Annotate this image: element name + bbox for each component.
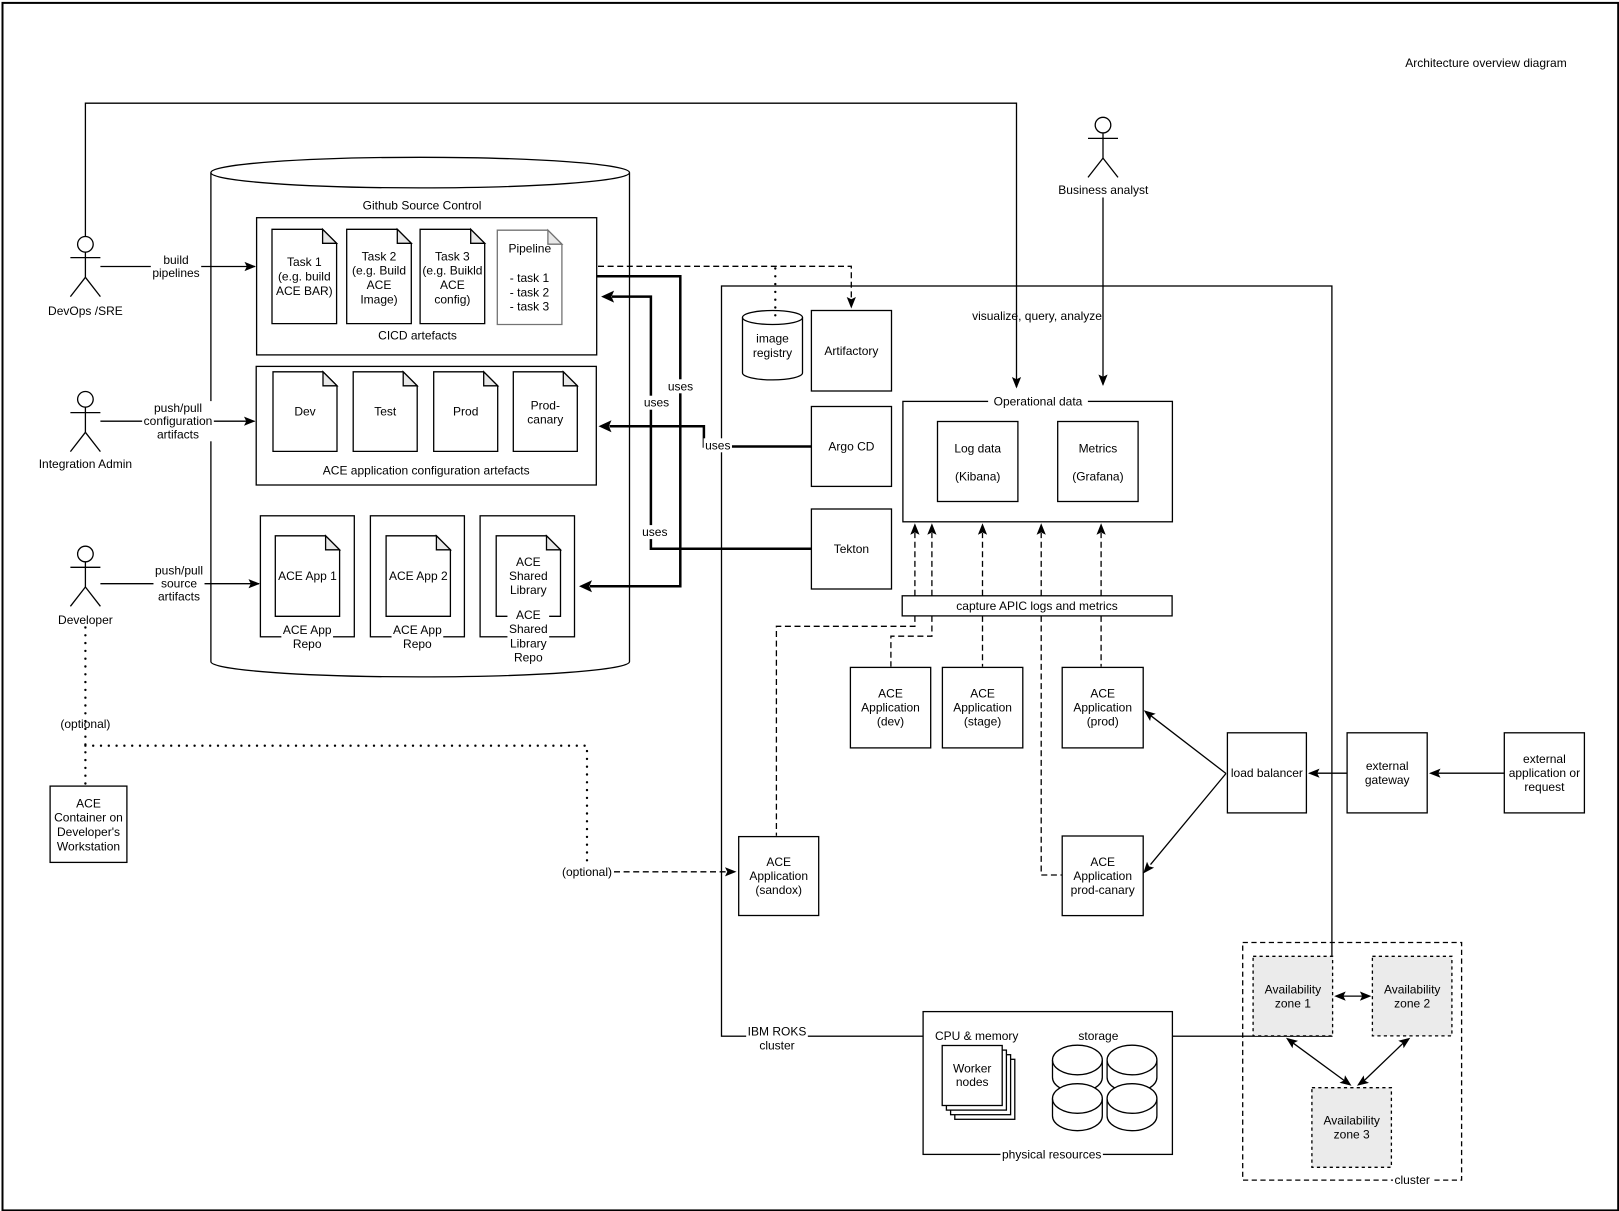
CICD artefacts container box	[257, 218, 597, 355]
svg-text:Task 2: Task 2	[362, 249, 397, 263]
svg-text:Artifactory: Artifactory	[824, 344, 878, 358]
svg-text:Repo: Repo	[403, 637, 432, 651]
svg-text:(e.g. Buikld: (e.g. Buikld	[422, 264, 482, 278]
external gateway box	[1347, 733, 1427, 813]
svg-text:Metrics: Metrics	[1079, 442, 1118, 456]
svg-text:nodes: nodes	[956, 1075, 989, 1089]
svg-text:Log data: Log data	[954, 442, 1001, 456]
svg-text:artifacts: artifacts	[157, 427, 199, 441]
physical resources box	[923, 1012, 1172, 1155]
svg-text:uses: uses	[642, 525, 667, 539]
Artifactory box	[811, 311, 891, 392]
ACE Shared Library Repo box	[480, 516, 574, 637]
svg-text:Pipeline: Pipeline	[508, 242, 551, 256]
svg-text:DevOps /SRE: DevOps /SRE	[48, 304, 123, 318]
svg-text:ACE: ACE	[76, 796, 101, 810]
Operational data box	[903, 401, 1173, 521]
document ACE Shared Library	[496, 536, 560, 617]
svg-text:ACE App 2: ACE App 2	[389, 569, 448, 583]
ACE Application (prod) box	[1062, 667, 1143, 748]
Worker nodes stacked sheets	[955, 1059, 1015, 1119]
svg-text:Shared: Shared	[509, 569, 548, 583]
svg-text:artifacts: artifacts	[158, 590, 200, 604]
svg-text:Image): Image)	[360, 293, 397, 307]
document ACE App 2	[386, 536, 450, 617]
dashed wire capture box down to ACE Application (dev)	[891, 616, 932, 667]
svg-text:Prod-: Prod-	[531, 399, 560, 413]
Availability zone 3 box	[1312, 1088, 1392, 1168]
svg-text:Test: Test	[374, 405, 397, 419]
svg-text:(optional): (optional)	[60, 717, 110, 731]
svg-text:gateway: gateway	[1365, 773, 1410, 787]
svg-text:uses: uses	[705, 438, 730, 452]
wire Integration Admin to config artefacts: push/pull configuration artifacts	[100, 420, 254, 422]
dashed wires capture box up to Operational data	[914, 533, 916, 596]
svg-text:Developer: Developer	[58, 613, 113, 627]
svg-text:Task 3: Task 3	[435, 249, 470, 263]
Argo CD box	[811, 407, 891, 487]
wire DevOps to CICD artefacts: build pipelines	[100, 266, 255, 268]
svg-text:zone 3: zone 3	[1334, 1128, 1370, 1142]
svg-text:external: external	[1366, 759, 1409, 773]
svg-text:Prod: Prod	[453, 405, 478, 419]
Availability zone 1 box	[1253, 956, 1333, 1036]
double arrow AZ2 - AZ3	[1364, 1043, 1404, 1081]
svg-text:(prod): (prod)	[1087, 715, 1119, 729]
wire load balancer to ACE Application prod-canary	[1151, 774, 1227, 865]
wire load balancer to ACE Application (prod)	[1151, 716, 1226, 774]
svg-text:(Grafana): (Grafana)	[1072, 470, 1123, 484]
double arrow AZ1 - AZ3	[1293, 1043, 1345, 1081]
svg-text:IBM ROKS: IBM ROKS	[748, 1025, 807, 1039]
svg-text:(optional): (optional)	[562, 865, 612, 879]
svg-text:Application: Application	[861, 701, 920, 715]
Github Source Control cylinder	[211, 173, 630, 677]
svg-text:CICD artefacts: CICD artefacts	[378, 329, 457, 343]
ACE Container on Developer's Workstation box	[50, 786, 127, 862]
svg-text:Container on: Container on	[54, 811, 123, 825]
svg-text:(dev): (dev)	[877, 715, 904, 729]
svg-text:ACE: ACE	[1090, 855, 1115, 869]
document Dev	[273, 372, 337, 452]
svg-text:Shared: Shared	[509, 622, 548, 636]
svg-text:Architecture overview diagram: Architecture overview diagram	[1405, 56, 1566, 70]
svg-text:Tekton: Tekton	[834, 542, 869, 556]
actor Developer	[70, 546, 100, 606]
dashed wire Pipeline to Artifactory	[598, 266, 851, 306]
wire Business analyst to Operational data: visualize, query, analyze	[1102, 198, 1104, 385]
svg-text:Operational data: Operational data	[994, 394, 1083, 408]
svg-text:Availability: Availability	[1384, 982, 1440, 996]
svg-text:cluster: cluster	[1395, 1173, 1430, 1187]
svg-text:Application: Application	[953, 701, 1012, 715]
dotted wire to image registry	[774, 269, 776, 316]
svg-text:push/pull: push/pull	[154, 401, 202, 415]
svg-text:registry: registry	[753, 346, 792, 360]
svg-text:Task 1: Task 1	[287, 255, 322, 269]
image registry cylinder	[743, 318, 803, 380]
svg-text:ACE: ACE	[970, 687, 995, 701]
svg-text:Workstation: Workstation	[57, 840, 120, 854]
svg-text:Application: Application	[1073, 869, 1132, 883]
ACE Application (sandox) box	[739, 837, 819, 916]
svg-text:Availability: Availability	[1265, 982, 1321, 996]
actor Integration Admin	[70, 392, 100, 452]
wire external application to external gateway	[1431, 772, 1505, 774]
double arrow AZ1 - AZ2	[1343, 995, 1363, 997]
document Task 2	[347, 229, 412, 323]
svg-text:Github Source Control: Github Source Control	[363, 199, 482, 213]
thick wire Tekton to CICD artefacts (uses)	[612, 297, 811, 549]
svg-text:ACE application configuration: ACE application configuration artefacts	[323, 463, 530, 477]
svg-text:prod-canary: prod-canary	[1071, 883, 1135, 897]
ACE App Repo box 2	[370, 516, 464, 637]
svg-text:(sandox): (sandox)	[755, 883, 802, 897]
ACE Application (dev) box	[850, 667, 930, 748]
actor Business analyst	[1088, 117, 1118, 177]
ACE Application (stage) box	[942, 667, 1022, 748]
svg-text:Application: Application	[749, 869, 808, 883]
document Pipeline	[497, 230, 562, 324]
svg-text:cluster: cluster	[759, 1039, 794, 1053]
svg-text:ACE App: ACE App	[283, 623, 332, 637]
ACE Application prod-canary box	[1062, 836, 1143, 916]
svg-text:ACE BAR): ACE BAR)	[276, 284, 333, 298]
svg-text:- task 1: - task 1	[510, 271, 550, 285]
svg-text:ACE: ACE	[878, 687, 903, 701]
svg-text:source: source	[161, 577, 197, 591]
dotted wire Developer to ACE Container (optional)	[84, 628, 86, 786]
svg-text:Worker: Worker	[953, 1061, 991, 1075]
svg-text:(stage): (stage)	[964, 715, 1001, 729]
svg-text:(e.g. build: (e.g. build	[278, 270, 331, 284]
svg-text:- task 2: - task 2	[510, 285, 550, 299]
ACE App Repo box 1	[260, 516, 354, 637]
svg-text:configuration: configuration	[144, 414, 213, 428]
Metrics (Grafana) box	[1058, 422, 1138, 502]
svg-text:Library: Library	[510, 583, 547, 597]
svg-text:uses: uses	[668, 379, 693, 393]
svg-text:ACE: ACE	[440, 278, 465, 292]
svg-text:ACE: ACE	[766, 855, 791, 869]
svg-text:zone 1: zone 1	[1275, 996, 1311, 1010]
svg-text:Business analyst: Business analyst	[1058, 183, 1149, 197]
dashed wire capture box down to ACE Application (prod)	[1100, 616, 1102, 667]
svg-text:Repo: Repo	[514, 651, 543, 665]
ACE application configuration artefacts box	[256, 366, 596, 485]
svg-text:load balancer: load balancer	[1231, 766, 1303, 780]
svg-text:Integration Admin: Integration Admin	[39, 457, 132, 471]
actor DevOps /SRE	[70, 237, 100, 297]
document Prod	[434, 372, 498, 452]
svg-text:- task 3: - task 3	[510, 300, 550, 314]
svg-text:(Kibana): (Kibana)	[955, 470, 1000, 484]
load balancer box	[1227, 733, 1306, 813]
svg-text:request: request	[1524, 780, 1565, 794]
svg-text:(e.g. Build: (e.g. Build	[352, 264, 406, 278]
dashed wire capture box down to ACE Application (sandox)	[776, 616, 915, 836]
dashed wire capture box down to ACE Application (stage)	[982, 616, 984, 667]
svg-text:Repo: Repo	[293, 637, 322, 651]
svg-text:Application: Application	[1073, 701, 1132, 715]
svg-text:Availability: Availability	[1323, 1114, 1379, 1128]
svg-text:Library: Library	[510, 636, 547, 650]
svg-text:CPU & memory: CPU & memory	[935, 1029, 1018, 1043]
svg-text:build: build	[163, 253, 188, 267]
wire external gateway to load balancer	[1310, 772, 1348, 774]
svg-text:image: image	[756, 331, 789, 345]
Availability zone 2 box	[1372, 956, 1452, 1036]
Tekton box	[811, 509, 891, 589]
cluster dashed box	[1243, 943, 1462, 1181]
svg-text:ACE: ACE	[1090, 687, 1115, 701]
svg-text:ACE: ACE	[516, 608, 541, 622]
svg-text:pipelines: pipelines	[152, 266, 199, 280]
thick wire CICD artefacts to ACE Shared Library Repo (uses)	[590, 276, 680, 586]
svg-text:zone 2: zone 2	[1394, 996, 1430, 1010]
thick wire Argo CD to config artefacts (uses)	[610, 426, 812, 446]
svg-text:Dev: Dev	[294, 405, 315, 419]
Log data (Kibana) box	[938, 422, 1018, 502]
svg-text:Argo CD: Argo CD	[828, 440, 874, 454]
svg-text:uses: uses	[644, 396, 669, 410]
svg-text:ACE App 1: ACE App 1	[278, 569, 337, 583]
svg-text:storage: storage	[1078, 1029, 1118, 1043]
dotted wire Developer branch to sandox (optional)	[85, 746, 587, 864]
document Prod-canary	[513, 372, 577, 452]
svg-text:external: external	[1523, 752, 1566, 766]
external application or request box	[1504, 733, 1584, 813]
document Test	[353, 372, 417, 452]
svg-text:application or: application or	[1509, 766, 1580, 780]
document Task 1	[272, 229, 337, 323]
wire Developer to ACE App Repo: push/pull source artifacts	[100, 583, 259, 585]
svg-text:config): config)	[434, 293, 470, 307]
svg-text:physical resources: physical resources	[1002, 1147, 1101, 1161]
capture APIC logs and metrics box	[902, 596, 1172, 616]
svg-text:capture APIC logs and metrics: capture APIC logs and metrics	[956, 599, 1117, 613]
IBM ROKS cluster box	[722, 286, 1332, 1036]
storage cylinders	[1053, 1060, 1103, 1092]
dashed arrow into ACE Application (sandox)	[614, 871, 735, 873]
svg-text:ACE: ACE	[367, 278, 392, 292]
svg-text:push/pull: push/pull	[155, 564, 203, 578]
svg-text:canary: canary	[527, 413, 563, 427]
svg-text:ACE App: ACE App	[393, 623, 442, 637]
document Task 3	[420, 229, 485, 323]
svg-text:ACE: ACE	[516, 555, 541, 569]
svg-text:visualize, query, analyze: visualize, query, analyze	[972, 309, 1102, 323]
document ACE App 1	[275, 536, 339, 617]
wire DevOps up-over to Operational data	[85, 103, 1016, 387]
IBM ROKS cluster label	[746, 1025, 808, 1053]
svg-text:Developer's: Developer's	[57, 825, 120, 839]
dashed wire capture box down to ACE Application prod-canary	[1041, 616, 1061, 875]
